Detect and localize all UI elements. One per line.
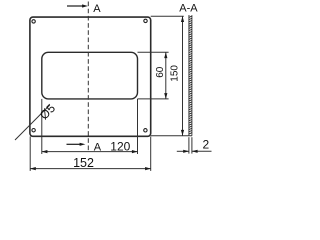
ext line cutout left [41,99,43,154]
cutout [42,52,138,99]
dim line 152 [30,168,151,170]
ext line plate bottom right [151,135,192,137]
dim line 2 left segment [177,150,189,152]
hole top-left [32,20,35,23]
svg-text:150: 150 [170,65,181,82]
svg-text:120: 120 [110,139,130,153]
dim 150 [151,16,192,136]
ext line bar left [188,137,190,153]
svg-text:2: 2 [203,138,210,152]
ext line bar right [191,137,193,153]
ext line plate left [29,137,31,171]
ext line cutout top right [138,51,169,53]
dim 60 [138,52,169,99]
dim line 120 [42,151,138,153]
dim line 150 [182,16,184,136]
ext line plate top right [151,15,184,17]
section line A-A (dashed) [87,2,89,151]
svg-text:152: 152 [73,156,94,170]
dim 120 [42,99,138,154]
svg-text:60: 60 [155,66,166,78]
dim line 60 [165,52,167,99]
hole top-right [144,19,147,22]
svg-text:A: A [93,3,101,15]
leader line for hole diameter [15,105,50,140]
hole bottom-left [32,129,35,132]
ext line cutout bottom right [138,98,169,100]
svg-text:A-A: A-A [179,3,198,15]
dim 152 [30,137,151,171]
section arrow bottom [67,143,86,146]
section bar A-A (hatched) [185,12,196,136]
hole bottom-right [144,129,147,132]
plate outline [30,17,151,136]
ext line cutout right [137,99,139,154]
dim line 2 right segment [192,150,212,152]
section arrow top [67,4,88,7]
dim 2 (section thickness) [177,137,212,153]
ext line plate right [150,137,152,171]
